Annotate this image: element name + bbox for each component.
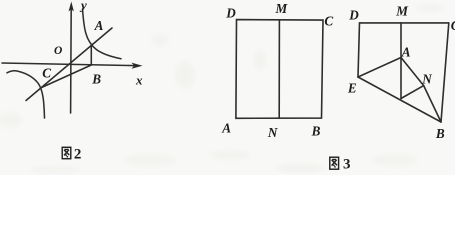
segment EB	[358, 77, 441, 122]
svg-text:D: D	[225, 5, 236, 20]
x-axis arrowhead	[132, 63, 143, 69]
svg-text:M: M	[395, 4, 409, 19]
svg-text:A: A	[94, 18, 104, 33]
svg-text:M: M	[275, 1, 289, 16]
svg-text:B: B	[311, 123, 321, 138]
hyperbola left branch	[7, 71, 45, 118]
segment AE	[358, 58, 401, 78]
svg-text:N: N	[421, 71, 432, 86]
svg-text:3: 3	[343, 157, 351, 173]
left edge DE	[358, 23, 360, 77]
svg-text:O: O	[54, 45, 62, 57]
top edge DC	[360, 22, 449, 24]
x-axis	[2, 63, 135, 66]
svg-text:D: D	[348, 7, 359, 22]
segment M-foot vertical	[400, 23, 402, 99]
svg-text:A: A	[221, 121, 231, 136]
svg-text:B: B	[91, 72, 101, 87]
rectangle midline MN	[278, 20, 280, 118]
svg-text:x: x	[135, 73, 143, 88]
y-axis arrowhead	[69, 2, 74, 12]
segment NB	[424, 86, 441, 122]
right edge CB	[441, 23, 449, 122]
y-axis	[70, 8, 73, 113]
svg-text:E: E	[347, 81, 357, 96]
caption tu2 glyph box	[62, 147, 71, 158]
segment AB vertical	[90, 45, 92, 66]
svg-text:C: C	[42, 65, 51, 80]
segment CB	[41, 65, 92, 88]
svg-text:y: y	[79, 0, 87, 13]
svg-text:B: B	[435, 126, 445, 141]
folded figure outline	[358, 23, 449, 122]
svg-text:A: A	[401, 45, 411, 60]
caption tu3 glyph box	[330, 157, 339, 169]
fig3 rectangle outline	[236, 20, 323, 119]
segment N-foot	[401, 86, 424, 99]
faint scan noise	[0, 4, 444, 174]
svg-text:C: C	[324, 13, 333, 28]
svg-text:2: 2	[74, 147, 82, 163]
line CA through origin	[26, 28, 112, 101]
svg-text:C: C	[451, 18, 455, 33]
segment AN	[401, 58, 424, 86]
svg-text:N: N	[267, 125, 278, 140]
hyperbola right branch	[83, 9, 122, 59]
